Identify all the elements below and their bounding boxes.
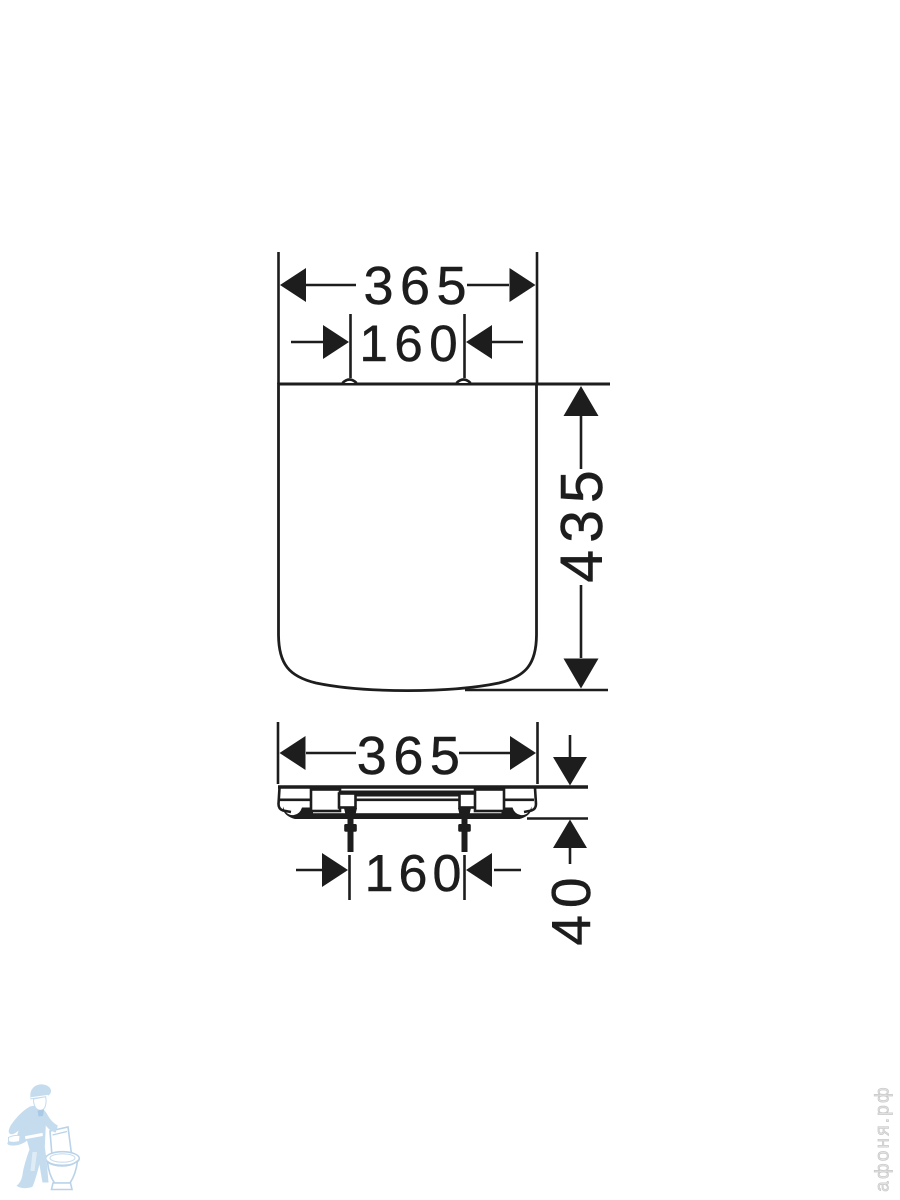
plumber plunger stick bbox=[25, 1132, 44, 1140]
bolt left head bbox=[344, 808, 357, 819]
svg-text:160: 160 bbox=[360, 315, 465, 372]
side view buffer feet left bbox=[283, 807, 313, 820]
hinge bump right on seat top edge bbox=[457, 380, 471, 384]
dim40 up arrow bbox=[553, 820, 587, 849]
dim365side left extension line bbox=[277, 722, 280, 784]
side view slab top line extended bbox=[278, 785, 588, 789]
plumber toilet tank inner line bbox=[53, 1132, 68, 1136]
seat top edge extended to 435 dimension bbox=[279, 383, 611, 386]
dim160top right arrow bbox=[466, 325, 492, 359]
dim365top line left segment bbox=[306, 284, 356, 287]
dim160bottom right arrow bbox=[466, 853, 492, 887]
svg-text:40: 40 bbox=[540, 870, 602, 945]
side view buffer feet right bbox=[502, 807, 532, 820]
dim160bottom left tail line bbox=[296, 869, 322, 872]
dim160top left arrow bbox=[323, 325, 349, 359]
side view bottom band bbox=[312, 813, 504, 819]
dim160top right tail line bbox=[492, 341, 523, 344]
dim365top left extension line bbox=[277, 252, 280, 384]
bolt right collar bbox=[458, 824, 471, 832]
plumber cap bbox=[30, 1084, 51, 1099]
seat outline top view bbox=[279, 384, 537, 691]
dim40 bottom extension line bbox=[527, 817, 588, 820]
side view upper band bbox=[311, 791, 504, 797]
side view slab left edge bbox=[279, 788, 292, 812]
svg-text:афоня.рф: афоня.рф bbox=[873, 1085, 894, 1192]
watermark plumber logo bbox=[7, 1084, 79, 1189]
side view slab right edge bbox=[524, 788, 536, 812]
side view hinge inner block left bbox=[339, 794, 356, 808]
plumber toilet bowl rim bbox=[46, 1152, 80, 1166]
dim365side right arrow bbox=[510, 736, 536, 770]
dim160bottom left extension line bbox=[348, 855, 351, 900]
plumber toilet bowl body bbox=[48, 1161, 78, 1183]
dim365top left arrow bbox=[280, 268, 306, 302]
dim365side line right segment bbox=[459, 752, 510, 755]
plumber leg highlight bbox=[31, 1152, 38, 1171]
svg-text:365: 365 bbox=[363, 256, 473, 316]
dim365top right extension line bbox=[536, 252, 539, 384]
bolt right shaft bbox=[462, 818, 468, 852]
dim435 bottom extension line bbox=[465, 689, 608, 692]
side view hinge inner block right bbox=[460, 794, 477, 808]
side view hinge outer block left bbox=[311, 790, 340, 812]
dim160top left tail line bbox=[291, 341, 323, 344]
plumber toilet tank bbox=[50, 1127, 72, 1156]
plumber cap brim line bbox=[31, 1095, 48, 1097]
dim435 down arrow bbox=[564, 659, 599, 689]
plumber hand white bbox=[9, 1135, 21, 1142]
bolt right head bbox=[458, 808, 471, 819]
dim365side right extension line bbox=[536, 722, 539, 784]
dim160top right extension line bbox=[463, 314, 466, 378]
dim365top right arrow bbox=[510, 268, 536, 302]
dim160top left extension line bbox=[349, 314, 352, 378]
bolt left collar bbox=[344, 824, 357, 832]
dim435 up arrow bbox=[564, 386, 599, 416]
plumber toilet bowl rim inner bbox=[50, 1154, 75, 1162]
dim40 line upper segment bbox=[569, 735, 572, 758]
dim40 line lower segment bbox=[569, 847, 572, 864]
hinge bump left on seat top edge bbox=[343, 380, 357, 384]
dim160bottom right extension line bbox=[463, 855, 466, 900]
plumber bowtie bbox=[38, 1110, 45, 1117]
dim160bottom right tail line bbox=[494, 869, 521, 872]
svg-text:435: 435 bbox=[549, 463, 615, 582]
plumber toilet base bbox=[52, 1183, 73, 1190]
dim435 line upper segment bbox=[580, 413, 583, 469]
plumber face bbox=[33, 1097, 46, 1110]
dim160bottom left arrow bbox=[322, 853, 348, 887]
dim435 line lower segment bbox=[580, 585, 583, 658]
dim365side left arrow bbox=[280, 736, 306, 770]
plumber body jacket legs bbox=[7, 1106, 57, 1188]
svg-text:160: 160 bbox=[365, 845, 467, 903]
side view hinge outer block right bbox=[475, 790, 504, 812]
side view ledge line bbox=[280, 798, 534, 801]
bolt left shaft bbox=[348, 818, 354, 852]
dim40 down arrow bbox=[553, 757, 587, 786]
dim365side line left segment bbox=[306, 752, 356, 755]
dim365top line right segment bbox=[467, 284, 509, 287]
svg-text:365: 365 bbox=[357, 726, 467, 786]
